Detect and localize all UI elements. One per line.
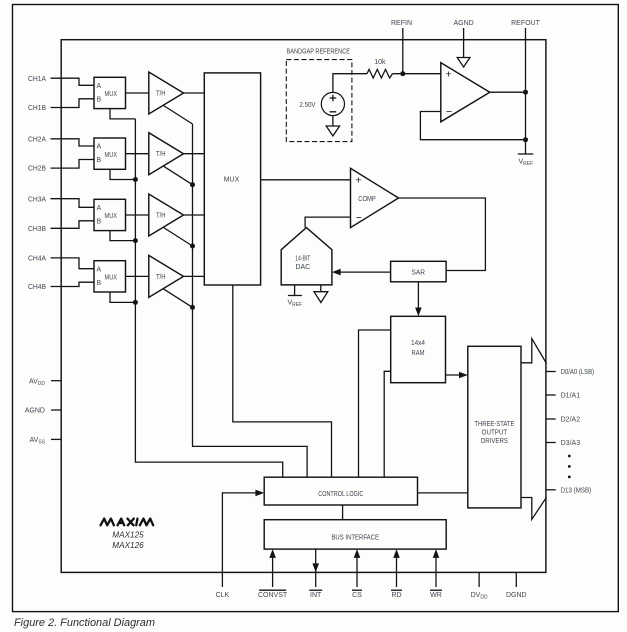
svg-text:DVDD: DVDD [471, 592, 488, 601]
svg-text:OUTPUT: OUTPUT [482, 429, 508, 436]
svg-text:VREF: VREF [519, 159, 534, 168]
op-amp (reference buffer) [441, 63, 490, 122]
node: select bus junction 2 [133, 177, 138, 182]
wire: mux 4 select stub [110, 292, 135, 302]
IC boundary MAX125/MAX126 [61, 40, 546, 573]
RAM block 14x4 [391, 316, 446, 382]
wire: control logic to bus interface [342, 505, 344, 520]
wire: channel-select bus to control logic [135, 119, 282, 477]
pin D0/A0 (LSB) [546, 369, 594, 376]
svg-text:B: B [97, 218, 102, 225]
svg-text:MUX: MUX [224, 177, 240, 184]
node: REFIN junction [400, 71, 405, 76]
voltage source 2.50V [300, 92, 345, 115]
ground symbol (below 2.50V source) [326, 116, 339, 136]
svg-text:CH1B: CH1B [28, 105, 46, 112]
svg-text:MUX: MUX [105, 152, 118, 159]
wire: comparator - input from DAC [305, 217, 350, 228]
svg-text:CS: CS [352, 592, 362, 599]
svg-text:DAC: DAC [296, 264, 311, 271]
T/H amplifier 3 [149, 194, 184, 236]
pin DVDD [471, 572, 488, 600]
pin AGND (left) [25, 408, 61, 415]
svg-text:VREF: VREF [288, 300, 303, 309]
svg-text:CH1A: CH1A [28, 76, 46, 83]
svg-text:WR: WR [430, 592, 442, 599]
svg-text:CH3B: CH3B [28, 226, 46, 233]
node: T/H bus junction 3 [190, 244, 195, 249]
svg-text:SAR: SAR [412, 270, 426, 277]
pin REFOUT [511, 20, 541, 154]
pin RD (in, overbar) [391, 549, 402, 599]
svg-text:T/H: T/H [156, 151, 166, 158]
svg-text:RD: RD [391, 592, 401, 599]
wire: comparator out to SAR [399, 198, 486, 271]
node: feedback junction [523, 137, 528, 142]
pin DGND [506, 572, 527, 599]
three-state output drivers block [468, 346, 521, 508]
svg-text:14x4: 14x4 [411, 340, 425, 347]
bandgap reference dashed box [286, 49, 352, 142]
svg-text:AGND: AGND [25, 408, 45, 415]
svg-text:MUX: MUX [105, 91, 118, 98]
svg-text:−: − [356, 212, 362, 224]
wire: feedback loop [420, 112, 525, 140]
VREF rail symbol (DAC) [288, 285, 303, 308]
svg-text:T/H: T/H [156, 91, 166, 98]
node: output junction [523, 90, 528, 95]
svg-text:CH2A: CH2A [28, 136, 46, 143]
pin REFIN [391, 20, 412, 74]
svg-text:RAM: RAM [412, 350, 425, 357]
input mux U4a (A/B MUX) [94, 261, 126, 292]
svg-text:B: B [97, 280, 102, 287]
T/H amplifier 2 [149, 133, 184, 175]
wire: T/H 3 out to analog MUX [184, 214, 205, 216]
wire: bus flag bottom [521, 497, 547, 519]
wire: T/H 4 control diagonal [164, 289, 193, 308]
wire: T/H 4 out to analog MUX [184, 275, 205, 277]
svg-text:CH3A: CH3A [28, 196, 46, 203]
wire: op-amp output to REFOUT [490, 91, 526, 93]
input mux U2a (A/B MUX) [94, 138, 126, 169]
svg-text:MAX125: MAX125 [112, 531, 144, 540]
pin CH3B [28, 221, 94, 233]
wire: mux 4 out to T/H [126, 275, 149, 277]
svg-text:D1/A1: D1/A1 [561, 393, 581, 400]
pin D2/A2 [546, 417, 580, 424]
svg-text:A: A [97, 266, 102, 273]
svg-text:MUX: MUX [105, 275, 118, 282]
pin D3/A3 [546, 440, 580, 447]
svg-text:CLK: CLK [216, 592, 230, 599]
node: T/H bus junction 2 [190, 182, 195, 187]
svg-text:T/H: T/H [156, 274, 166, 281]
pin CH2A [28, 136, 94, 146]
T/H amplifier 4 [149, 255, 184, 297]
wire: mux 2 out to T/H [126, 153, 149, 155]
svg-text:BANDGAP REFERENCE: BANDGAP REFERENCE [287, 49, 351, 56]
wire: RAM upper ctrl [359, 330, 391, 477]
svg-text:DGND: DGND [506, 592, 527, 599]
svg-text:REFIN: REFIN [391, 20, 412, 27]
wire: RAM lower ctrl [384, 371, 391, 477]
wire: T/H 3 control diagonal [164, 228, 193, 247]
pin CH3A [28, 196, 94, 207]
ground symbol (DAC) [314, 285, 328, 303]
svg-text:D3/A3: D3/A3 [561, 440, 581, 447]
svg-text:AVDD: AVDD [29, 378, 45, 387]
pin CS (in, overbar) [352, 549, 362, 599]
comparator COMP [351, 168, 399, 227]
wire: T/H control bus to control logic [193, 124, 308, 477]
wire: mux 1 select stub [110, 109, 135, 119]
pin WR (in, overbar) [430, 549, 442, 599]
node: select bus junction 3 [133, 238, 138, 243]
svg-text:A: A [97, 144, 102, 151]
MAXIM logo [101, 519, 154, 526]
wire: resistor to op-amp + input [393, 73, 441, 75]
pin CH1A [28, 76, 94, 86]
svg-text:DRIVERS: DRIVERS [481, 438, 508, 445]
wire: T/H 1 control diagonal [164, 106, 193, 125]
svg-text:Figure 2. Functional Diagram: Figure 2. Functional Diagram [14, 617, 155, 629]
svg-text:2.50V: 2.50V [300, 102, 316, 109]
SAR register [391, 261, 447, 282]
wire: MUX out to comparator [261, 179, 351, 181]
wire: mux 2 select stub [110, 169, 135, 179]
wire: T/H 2 control diagonal [164, 166, 193, 185]
pin CONVST (in, overbar) [258, 549, 288, 599]
pin AVDD [29, 378, 61, 387]
svg-text:AGND: AGND [453, 20, 473, 27]
svg-text:−: − [446, 106, 452, 118]
pin CH1B [28, 99, 94, 112]
svg-text:A: A [97, 83, 102, 90]
wire: control logic to output drivers [418, 492, 468, 494]
wire+arrow: RAM to output drivers [446, 372, 468, 379]
svg-text:D13 (MSB): D13 (MSB) [561, 487, 592, 494]
T/H amplifier 1 [149, 72, 184, 114]
svg-text:B: B [97, 157, 102, 164]
VREF rail symbol (top right) [518, 154, 533, 167]
svg-text:CH4B: CH4B [28, 284, 46, 291]
wire: bus flag top [521, 339, 547, 364]
svg-text:CH2B: CH2B [28, 166, 46, 173]
wire+arrow: SAR to RAM [415, 282, 422, 317]
svg-text:+: + [355, 174, 361, 186]
wire: T/H 2 out to analog MUX [184, 153, 205, 155]
pin CLK [216, 490, 265, 599]
pin D13 (MSB) [546, 487, 591, 494]
input mux U1a (A/B MUX) [94, 77, 126, 108]
svg-text:COMP: COMP [358, 196, 376, 203]
pin CH4A [28, 256, 94, 269]
pin CH4B [28, 282, 94, 291]
wire: mux 1 out to T/H [126, 92, 149, 94]
pin AVSS [30, 437, 62, 446]
wire: mux 3 select stub [110, 231, 135, 241]
svg-text:D2/A2: D2/A2 [561, 417, 581, 424]
svg-text:A: A [97, 205, 102, 212]
svg-text:14-BIT: 14-BIT [295, 255, 311, 262]
svg-text:MAX126: MAX126 [112, 541, 144, 550]
ellipsis dots (data bus) [568, 455, 571, 479]
pin D1/A1 [546, 393, 580, 400]
ground symbol (AGND) [457, 58, 470, 68]
svg-text:CONVST: CONVST [258, 592, 288, 599]
wire: source top to resistor [333, 74, 367, 93]
svg-text:REFOUT: REFOUT [511, 20, 541, 27]
svg-text:T/H: T/H [156, 213, 166, 220]
svg-text:CH4A: CH4A [28, 256, 46, 263]
wire+arrow: SAR to DAC [332, 269, 391, 276]
bus interface block [264, 520, 446, 549]
svg-text:D0/A0 (LSB): D0/A0 (LSB) [561, 369, 595, 376]
wire: mux 3 out to T/H [126, 214, 149, 216]
pin CH2B [28, 160, 94, 173]
input mux U3a (A/B MUX) [94, 199, 126, 230]
wire: MUX select to control logic [233, 285, 332, 477]
svg-text:MUX: MUX [105, 213, 118, 220]
svg-text:CONTROL LOGIC: CONTROL LOGIC [318, 491, 363, 498]
pin AGND (top) [453, 20, 473, 58]
svg-text:THREE-STATE: THREE-STATE [474, 421, 514, 428]
node: T/H bus junction 4 [190, 305, 195, 310]
svg-text:B: B [97, 96, 102, 103]
wire: T/H 1 out to analog MUX [184, 92, 205, 94]
control logic block [264, 477, 417, 505]
svg-text:10k: 10k [374, 59, 386, 66]
resistor 10k [367, 59, 393, 78]
svg-text:AVSS: AVSS [30, 437, 46, 446]
analog MUX block [204, 73, 260, 285]
node: select bus junction 4 [133, 300, 138, 305]
DAC U5 (14-BIT DAC) [281, 228, 332, 285]
svg-text:INT: INT [310, 592, 322, 599]
svg-text:+: + [446, 68, 452, 80]
pin INT (out, overbar) [309, 549, 322, 599]
svg-text:BUS INTERFACE: BUS INTERFACE [331, 535, 379, 542]
